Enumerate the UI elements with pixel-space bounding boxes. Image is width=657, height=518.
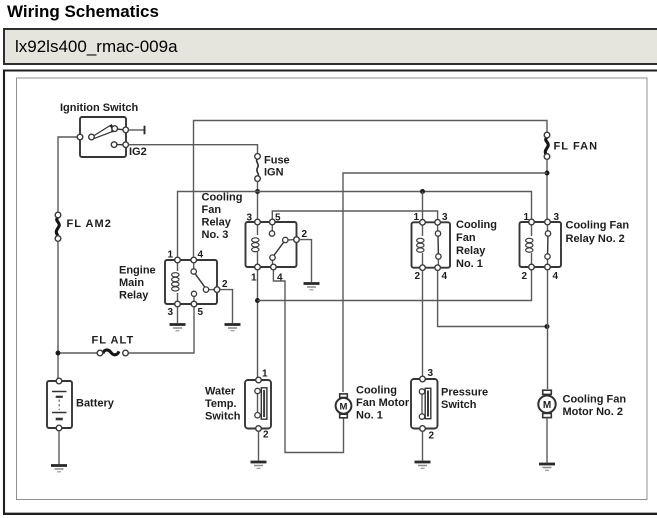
fusible link FL ALT bbox=[97, 350, 128, 356]
wire: rail drop to relay 1 pin 1 bbox=[422, 192, 424, 220]
ground below motor 2 bbox=[539, 464, 555, 470]
svg-text:4: 4 bbox=[198, 250, 204, 261]
svg-text:Fan Motor: Fan Motor bbox=[356, 397, 410, 409]
svg-text:Ignition Switch: Ignition Switch bbox=[60, 102, 138, 114]
wire: left rail FL AM2 to battery bbox=[57, 241, 59, 378]
wire: IG2 to fuse IGN bbox=[129, 145, 258, 154]
svg-text:Relay: Relay bbox=[456, 245, 486, 257]
svg-text:IGN: IGN bbox=[264, 167, 284, 179]
svg-text:No. 3: No. 3 bbox=[202, 229, 229, 241]
svg-text:2: 2 bbox=[429, 431, 435, 442]
svg-text:3: 3 bbox=[168, 307, 174, 318]
fusible link FL FAN bbox=[544, 132, 550, 159]
svg-text:4: 4 bbox=[553, 271, 559, 282]
ground below WTS bbox=[251, 462, 267, 468]
svg-text:1: 1 bbox=[262, 369, 268, 380]
svg-text:3: 3 bbox=[442, 212, 448, 223]
junction relay1 pin4 / motor2 feed bbox=[545, 324, 550, 329]
svg-text:Switch: Switch bbox=[441, 399, 477, 411]
svg-text:Cooling Fan: Cooling Fan bbox=[563, 394, 627, 406]
svg-text:Water: Water bbox=[205, 386, 236, 398]
ground below relay 3 pin 2 bbox=[304, 284, 320, 290]
svg-text:Fuse: Fuse bbox=[264, 155, 290, 167]
svg-text:1: 1 bbox=[168, 250, 174, 261]
svg-text:Cooling: Cooling bbox=[202, 192, 243, 204]
svg-text:3: 3 bbox=[247, 213, 253, 224]
ground below battery bbox=[51, 466, 67, 472]
ignition switch bbox=[77, 117, 128, 157]
svg-text:3: 3 bbox=[428, 368, 434, 379]
wire: EMR pin3 to ground bbox=[177, 307, 179, 323]
svg-text:Relay: Relay bbox=[119, 290, 149, 302]
svg-text:Cooling Fan: Cooling Fan bbox=[566, 220, 630, 232]
svg-text:2: 2 bbox=[302, 229, 308, 240]
wire: left rail to ignition switch bbox=[58, 137, 80, 213]
svg-text:Fan: Fan bbox=[202, 204, 222, 216]
svg-text:M: M bbox=[543, 400, 551, 411]
wire: FL FAN down to relay 2 pin 3 bbox=[546, 159, 548, 219]
svg-text:Relay No. 2: Relay No. 2 bbox=[566, 233, 625, 245]
svg-text:1: 1 bbox=[251, 273, 257, 284]
junction fuse to rail bbox=[255, 189, 260, 194]
svg-text:4: 4 bbox=[277, 273, 283, 284]
svg-text:No. 1: No. 1 bbox=[356, 410, 383, 422]
svg-text:Relay: Relay bbox=[202, 217, 232, 229]
svg-text:Main: Main bbox=[119, 277, 144, 289]
svg-text:FL FAN: FL FAN bbox=[554, 141, 599, 153]
wire: relay3 pin1 down to water temp switch bbox=[257, 270, 259, 378]
svg-text:M: M bbox=[340, 402, 348, 413]
ground below EMR pin 2 bbox=[225, 325, 241, 331]
ground below pressure switch bbox=[415, 462, 431, 468]
wire: EMR pin2 to ground bbox=[220, 290, 233, 323]
engine main relay bbox=[165, 257, 220, 307]
svg-text:Battery: Battery bbox=[76, 398, 115, 410]
wire: motor2 to ground bbox=[546, 418, 548, 463]
svg-text:1: 1 bbox=[524, 212, 530, 223]
svg-text:Engine: Engine bbox=[119, 265, 156, 277]
fuse IGN bbox=[255, 154, 261, 182]
svg-text:2: 2 bbox=[522, 271, 528, 282]
wire: y300 rail to relay2 pin 2 bbox=[258, 270, 532, 301]
fusible link FL AM2 bbox=[55, 212, 61, 241]
svg-text:2: 2 bbox=[415, 271, 421, 282]
svg-text:4: 4 bbox=[442, 271, 448, 282]
wire: engine main relay pin4 up and across to FL FAN bbox=[194, 121, 548, 261]
junction relay3 pin1 / y300 rail bbox=[255, 298, 260, 303]
cooling fan motor no 2 bbox=[538, 390, 555, 417]
cooling fan relay no 2 bbox=[520, 219, 562, 270]
page title bbox=[7, 2, 159, 22]
cooling fan relay no 1 bbox=[412, 220, 451, 271]
svg-text:Fan: Fan bbox=[456, 232, 476, 244]
svg-text:IG2: IG2 bbox=[129, 146, 147, 158]
cooling fan relay no 3 bbox=[246, 219, 300, 270]
wire: ignition switch IG1 stub bbox=[129, 129, 145, 131]
svg-text:2: 2 bbox=[263, 430, 269, 441]
junction battery/FL ALT bbox=[56, 351, 61, 356]
svg-text:Temp.: Temp. bbox=[205, 398, 237, 410]
pressure switch bbox=[411, 376, 438, 431]
svg-text:Cooling: Cooling bbox=[356, 385, 397, 397]
wire: battery to ground bbox=[58, 431, 60, 464]
wire: power rail y191 bbox=[178, 192, 532, 261]
svg-text:Cooling: Cooling bbox=[456, 219, 497, 231]
wire: relay1 pin4 across to motor2 line bbox=[438, 271, 547, 327]
wire: relay3 pin4 loop to motor1 bottom bbox=[273, 270, 343, 453]
wire: relay2 pin4 down to motor 2 bbox=[547, 270, 549, 389]
svg-text:5: 5 bbox=[198, 307, 204, 318]
wire: fuse to relay 3 pin 3 bbox=[257, 181, 259, 219]
svg-text:FL AM2: FL AM2 bbox=[67, 218, 112, 230]
junction FL FAN / motor1 feed bbox=[545, 171, 550, 176]
svg-text:2: 2 bbox=[222, 279, 228, 290]
junction rail to relay1 pin1 bbox=[420, 189, 425, 194]
svg-text:Switch: Switch bbox=[205, 411, 241, 423]
wire: relay3 pin5 to relay1 pin3 bbox=[272, 211, 437, 220]
wire: FL ALT run to engine main relay pin 5 bbox=[60, 352, 97, 354]
wire: relay3 pin2 to ground bbox=[299, 240, 311, 282]
wire: relay1 pin2 to pressure switch bbox=[422, 271, 424, 377]
svg-text:5: 5 bbox=[275, 213, 281, 224]
wire: WTS to ground bbox=[258, 431, 260, 460]
wire: pressure switch to ground bbox=[422, 431, 424, 460]
svg-text:FL ALT: FL ALT bbox=[92, 335, 135, 347]
wire: y173 run to cooling fan motor 1 bbox=[343, 173, 547, 392]
svg-text:Pressure: Pressure bbox=[441, 387, 488, 399]
battery bbox=[47, 378, 72, 431]
cooling fan motor no 1 bbox=[336, 394, 352, 418]
filename box bbox=[3, 28, 657, 65]
svg-text:1: 1 bbox=[414, 212, 420, 223]
water temp switch bbox=[245, 377, 271, 431]
svg-text:Motor No. 2: Motor No. 2 bbox=[563, 406, 624, 418]
svg-text:3: 3 bbox=[554, 212, 560, 223]
svg-text:No. 1: No. 1 bbox=[456, 258, 483, 270]
ground below EMR pin 3 bbox=[170, 325, 186, 331]
